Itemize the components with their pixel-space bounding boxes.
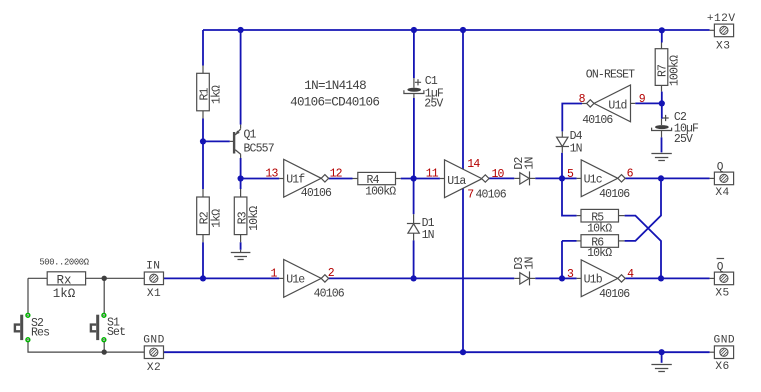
- svg-text:IN: IN: [146, 261, 160, 273]
- svg-text:X2: X2: [147, 362, 161, 374]
- svg-text:U1c: U1c: [584, 174, 603, 187]
- svg-text:U1d: U1d: [608, 100, 626, 113]
- connector X3: [714, 24, 733, 37]
- U1d output bubble: [587, 100, 594, 107]
- wire U1b output to X5: [625, 277, 709, 279]
- wire U1c input pin stub: [577, 177, 582, 179]
- wire X4 pin stub: [710, 177, 715, 179]
- wire C1 to node R4-right: [413, 98, 415, 179]
- svg-text:ON-RESET: ON-RESET: [586, 69, 635, 82]
- wire node to D1: [413, 179, 415, 215]
- svg-text:10kΩ: 10kΩ: [587, 247, 612, 260]
- wire Q1 base net: [203, 140, 230, 142]
- wire Q1 collector pin stub: [240, 154, 242, 158]
- wire U1f input pin stub: [279, 178, 283, 180]
- U1b output bubble: [618, 275, 625, 282]
- wire R6 left pin stub: [577, 240, 581, 242]
- wire C1 top: [413, 30, 415, 78]
- wire D1 to U1e output net: [413, 240, 415, 278]
- svg-text:X6: X6: [715, 361, 729, 373]
- op-amp U1a inverter: [445, 160, 507, 202]
- svg-text:BC557: BC557: [244, 143, 274, 156]
- svg-text:25V: 25V: [674, 133, 693, 146]
- svg-text:1N: 1N: [570, 142, 582, 155]
- wire U1b input pin stub: [577, 277, 582, 279]
- wire IN net X1 to U1e input: [163, 277, 279, 279]
- wire Q1 base pin stub: [230, 140, 233, 142]
- wire S1 bottom stub: [103, 342, 105, 353]
- wire U1d input pin stub: [631, 102, 636, 104]
- U1e output bubble: [321, 275, 328, 282]
- junction D1 / U1e output net: [411, 275, 417, 281]
- wire X5 pin stub: [710, 277, 715, 279]
- wire U1d input to node9: [635, 102, 662, 104]
- Q1 emitter diagonal with PNP arrow: [235, 129, 241, 135]
- wire S1 top to Rx junction: [103, 278, 105, 313]
- wire D1 cathode stub: [413, 214, 415, 223]
- svg-text:1N: 1N: [422, 229, 434, 242]
- C2 bottom plate cup: [652, 128, 672, 131]
- S1 bottom pin: [102, 338, 106, 342]
- svg-text:40106: 40106: [599, 188, 630, 201]
- wire C1 plus pin stub: [413, 78, 415, 88]
- wire R4 to U1a input: [401, 178, 440, 180]
- wire D1 anode stub: [413, 233, 415, 240]
- svg-text:1kΩ: 1kΩ: [210, 209, 223, 228]
- svg-text:8: 8: [579, 93, 586, 106]
- svg-text:1kΩ: 1kΩ: [210, 85, 223, 104]
- connector X4: [714, 172, 733, 185]
- wire D4 upper pin stub: [561, 131, 563, 137]
- C2 plus sign: [663, 115, 669, 121]
- svg-text:40106: 40106: [582, 114, 613, 127]
- wire X6 pin stub: [710, 351, 715, 353]
- wire C2 plus pin stub: [661, 119, 663, 125]
- wire U1e input pin stub: [279, 277, 283, 279]
- U1a output bubble: [482, 175, 489, 182]
- svg-text:+12V: +12V: [707, 13, 736, 25]
- svg-text:40106: 40106: [301, 187, 332, 200]
- switch S2 pushbutton: [15, 313, 30, 341]
- svg-text:Set: Set: [107, 326, 125, 339]
- junction GND bus / power rail: [460, 349, 466, 355]
- svg-text:U1b: U1b: [584, 274, 603, 287]
- S2 top pin: [26, 313, 30, 317]
- D4 triangle: [557, 137, 568, 146]
- wire Rx right to X1 (dark net): [86, 277, 145, 279]
- svg-text:13: 13: [265, 168, 278, 181]
- wire R1 pin stubs: [202, 66, 204, 119]
- junction top bus / power rail: [460, 27, 466, 33]
- wire Q1 emitter to +12V: [240, 30, 242, 125]
- svg-text:Rx: Rx: [56, 273, 71, 287]
- wire R6 right diagonal cross to U1c output: [625, 178, 661, 241]
- svg-text:6: 6: [627, 168, 634, 181]
- svg-text:40106: 40106: [599, 288, 630, 301]
- switch S1 pushbutton: [91, 313, 106, 341]
- junction Q1 collector / R3 / U1f input: [238, 175, 244, 181]
- wire +12V top bus: [203, 29, 710, 31]
- svg-text:40106=CD40106: 40106=CD40106: [290, 95, 379, 109]
- svg-text:100kΩ: 100kΩ: [668, 55, 681, 86]
- U1f output bubble: [321, 175, 328, 182]
- C1 plus sign: [415, 79, 421, 85]
- op-amp U1e inverter: [284, 260, 345, 301]
- ground below C2: [651, 154, 671, 161]
- wire Rx left down to S2 top: [28, 278, 47, 313]
- wire D4 lower pin stub: [561, 146, 563, 152]
- svg-text:3: 3: [567, 268, 574, 281]
- junction Rx / S1 top (dark net): [102, 276, 107, 281]
- S2 bottom pin: [26, 338, 30, 342]
- svg-text:GND: GND: [143, 335, 165, 347]
- svg-text:12: 12: [330, 168, 343, 181]
- wire Q1 emitter pin stub: [240, 125, 242, 129]
- svg-text:1: 1: [270, 268, 277, 281]
- svg-text:X3: X3: [716, 40, 730, 52]
- junction S1 bottom / X2 net (dark net): [102, 349, 107, 354]
- capacitor C2: [652, 115, 672, 131]
- svg-text:1kΩ: 1kΩ: [53, 287, 76, 301]
- C1 top plate lens: [407, 88, 421, 92]
- connector X5: [714, 272, 733, 285]
- node Qbar overline: [717, 258, 725, 260]
- resistor R4: [358, 172, 396, 184]
- wire GND bottom bus: [163, 351, 709, 353]
- svg-text:X5: X5: [715, 287, 729, 299]
- D1 triangle: [408, 224, 419, 233]
- wire D4 to U1d output: [562, 104, 582, 132]
- S2 knob: [15, 325, 20, 332]
- S1 actuator bar: [96, 315, 99, 340]
- svg-text:100kΩ: 100kΩ: [365, 186, 396, 199]
- svg-text:C1: C1: [425, 75, 438, 88]
- svg-text:500..2000Ω: 500..2000Ω: [39, 258, 89, 268]
- svg-text:D4: D4: [570, 130, 583, 143]
- diode D1: [407, 224, 420, 234]
- resistor R2: [197, 197, 210, 235]
- junction node 3 D3/R6: [559, 275, 565, 281]
- D2 cathode bar: [529, 171, 531, 185]
- wire U1d output bubble stub: [582, 103, 587, 105]
- wire R4 left pin stub: [353, 178, 358, 180]
- wire U1f output to R4: [329, 178, 353, 180]
- ground on GND bus: [661, 352, 663, 363]
- wire C2 minus pin stub: [661, 130, 663, 137]
- wire C1 minus pin stub: [413, 94, 415, 98]
- wire node9 to C2: [661, 103, 663, 118]
- diode D2: [520, 171, 530, 185]
- wire Q1 collector / U1f input / R3 branch: [240, 158, 242, 250]
- connector X6: [714, 346, 733, 359]
- junction R1/R2/Q1 base: [200, 138, 206, 144]
- D4 cathode bar: [556, 146, 569, 148]
- wire U1e output to D3: [329, 277, 515, 279]
- junction top bus / C1: [411, 27, 417, 33]
- D2 triangle: [520, 173, 529, 184]
- wire D3 cathode stub: [530, 277, 536, 279]
- wire power rail vertical through U1a pins 14/7: [462, 30, 464, 352]
- wire U1f input: [241, 178, 280, 180]
- Q1 base bar: [233, 132, 235, 154]
- wire R7 bottom to node9: [661, 92, 663, 104]
- svg-text:40106: 40106: [476, 188, 507, 201]
- wire U1a input pin stub: [440, 178, 445, 180]
- svg-text:1N: 1N: [523, 257, 536, 269]
- S1 knob: [91, 325, 96, 332]
- svg-text:X4: X4: [715, 187, 729, 199]
- connector X1: [144, 272, 163, 285]
- S2 actuator bar: [20, 315, 23, 340]
- junction R2 / IN net: [200, 275, 206, 281]
- wire D2 cathode stub: [530, 177, 536, 179]
- wire D3 to U1b pin 3: [535, 277, 562, 279]
- U1c output bubble: [618, 175, 625, 182]
- diode D3: [520, 271, 530, 285]
- wire R5 left pin stub: [577, 215, 581, 217]
- svg-text:2: 2: [328, 267, 335, 280]
- ground below R3: [231, 250, 251, 260]
- wire left column R1-R2 branch: [202, 30, 204, 278]
- wire D3 anode stub: [514, 277, 520, 279]
- wire R2 pin stubs: [202, 189, 204, 242]
- wire C2 to ground: [661, 137, 663, 152]
- wire node3 up to R6 left: [562, 241, 577, 279]
- wire R5 right pin stub: [619, 215, 625, 217]
- svg-text:GND: GND: [714, 335, 736, 347]
- wire R3 pin stubs: [240, 189, 242, 242]
- wire D2 to U1c pin 5: [535, 177, 562, 179]
- svg-text:10: 10: [492, 168, 505, 181]
- svg-text:Q1: Q1: [244, 128, 257, 141]
- svg-text:U1a: U1a: [447, 175, 466, 188]
- wire R7 pin stubs: [661, 43, 663, 92]
- op-amp U1d inverter mirrored: [582, 85, 630, 127]
- C1 bottom plate cup: [404, 90, 424, 93]
- svg-text:5: 5: [567, 168, 574, 181]
- resistor R5: [581, 209, 619, 222]
- C2 top plate lens: [655, 125, 669, 129]
- svg-text:10kΩ: 10kΩ: [248, 206, 261, 231]
- svg-text:1N=1N4148: 1N=1N4148: [304, 79, 366, 93]
- wire junction to X2 (dark net): [104, 351, 144, 353]
- svg-text:U1e: U1e: [286, 274, 305, 287]
- junction R4 / C1 / D1 / U1a input: [411, 175, 417, 181]
- svg-text:25V: 25V: [424, 98, 443, 111]
- connector X2: [144, 346, 163, 359]
- wire node5 up to D4: [561, 153, 563, 179]
- resistor R3: [234, 197, 247, 235]
- wire R4 right pin stub: [396, 178, 401, 180]
- wire X3 pin stub: [710, 29, 715, 31]
- junction node 5 D2/D4/R5: [559, 175, 565, 181]
- svg-text:11: 11: [426, 168, 439, 181]
- junction U1b output / R5 cross / X5: [658, 275, 664, 281]
- junction top bus / Q1 emitter: [238, 27, 244, 33]
- capacitor C1: [404, 79, 424, 93]
- junction GND bus / ground symbol: [659, 349, 665, 355]
- S1 top pin: [102, 313, 106, 317]
- op-amp U1c inverter: [581, 160, 630, 201]
- wire S2 bottom to GND junction: [28, 342, 104, 353]
- resistor Rx: [47, 272, 85, 285]
- wire U1c input: [562, 177, 577, 179]
- junction top bus / R7: [659, 27, 665, 33]
- wire U1b input: [562, 277, 577, 279]
- resistor R7: [655, 49, 668, 86]
- svg-text:9: 9: [639, 93, 646, 106]
- wire U1a output to D2: [489, 177, 514, 179]
- svg-text:1N: 1N: [523, 157, 536, 169]
- wire R5 right diagonal cross to U1b output: [625, 216, 661, 279]
- wire node5 down to R5 left: [562, 178, 577, 215]
- svg-text:4: 4: [627, 268, 634, 281]
- wire U1c output to X4: [625, 177, 709, 179]
- wire D2 anode stub: [514, 177, 520, 179]
- svg-text:X1: X1: [147, 288, 161, 300]
- op-amp U1f inverter: [284, 159, 332, 199]
- svg-text:Q: Q: [717, 162, 724, 174]
- resistor R6: [581, 235, 619, 248]
- Q1 collector diagonal: [235, 150, 241, 155]
- op-amp U1b inverter: [581, 260, 630, 301]
- D3 cathode bar: [529, 271, 531, 285]
- junction node 9 R7/C2/U1d input: [659, 100, 665, 106]
- svg-text:Q: Q: [717, 261, 724, 273]
- svg-text:40106: 40106: [314, 288, 345, 301]
- D1 cathode bar: [407, 223, 420, 225]
- diode D4: [556, 137, 569, 146]
- D3 triangle: [520, 273, 529, 284]
- svg-text:14: 14: [467, 158, 480, 171]
- svg-text:10kΩ: 10kΩ: [587, 223, 612, 236]
- junction U1c output / R6 cross / X4: [658, 175, 664, 181]
- resistor R1: [197, 73, 210, 111]
- svg-text:Res: Res: [31, 327, 49, 340]
- wire R7 top: [661, 30, 663, 42]
- transistor Q1: [234, 129, 241, 154]
- svg-text:7: 7: [467, 188, 473, 201]
- svg-text:U1f: U1f: [286, 174, 305, 187]
- wire R6 right pin stub: [619, 240, 625, 242]
